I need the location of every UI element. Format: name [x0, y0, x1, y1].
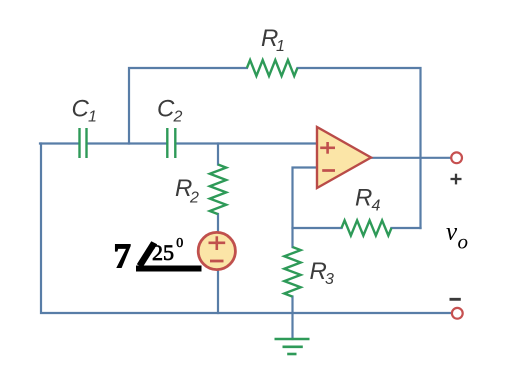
svg-text:C: C: [157, 96, 175, 123]
svg-text:R: R: [355, 185, 372, 212]
svg-text:4: 4: [372, 198, 381, 215]
svg-text:2: 2: [173, 109, 183, 126]
svg-text:C: C: [72, 96, 90, 123]
svg-text:o: o: [458, 230, 469, 254]
svg-text:0: 0: [176, 236, 183, 251]
svg-text:3: 3: [325, 271, 334, 288]
svg-text:v: v: [446, 219, 458, 246]
svg-text:7: 7: [114, 237, 132, 276]
svg-text:1: 1: [88, 109, 97, 126]
svg-text:1: 1: [276, 38, 285, 55]
svg-text:2: 2: [189, 190, 199, 207]
